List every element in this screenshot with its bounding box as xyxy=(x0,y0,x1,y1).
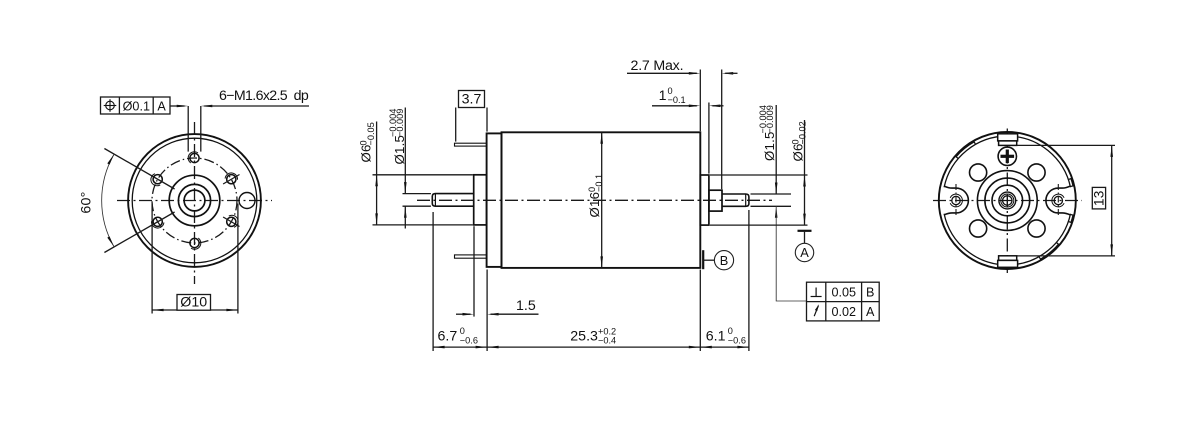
svg-text:Ø16: Ø16 xyxy=(587,192,602,218)
perpendicularity and runout tolerance frames xyxy=(807,282,880,321)
thread callout extension lines xyxy=(187,106,189,152)
svg-text:Ø0.1: Ø0.1 xyxy=(123,99,150,113)
svg-text:B: B xyxy=(720,253,729,268)
svg-text:−0.009: −0.009 xyxy=(765,105,775,133)
right Ø6 dimension line xyxy=(804,120,806,225)
rim slot below right ear xyxy=(1071,215,1073,222)
svg-text:Ø1.5: Ø1.5 xyxy=(762,131,777,161)
rear view horizontal centerline xyxy=(933,200,1082,202)
svg-text:−0.02: −0.02 xyxy=(798,121,808,144)
motor body outline xyxy=(502,132,701,268)
terminal tab bottom xyxy=(455,255,487,258)
svg-text:Ø10: Ø10 xyxy=(180,295,207,311)
front view vertical centerline xyxy=(194,122,196,284)
datum B symbol xyxy=(702,250,704,269)
Ø10 extension lines xyxy=(151,204,153,314)
svg-text:2.7 Max.: 2.7 Max. xyxy=(631,58,684,74)
rim slot above right ear xyxy=(1071,179,1073,186)
left Ø6 dimension line xyxy=(376,122,378,225)
6.7 dimension xyxy=(433,346,487,348)
tapped hole M1.6 #4 at 270 deg xyxy=(190,238,199,247)
Ø16 label xyxy=(587,192,602,218)
svg-text:60°: 60° xyxy=(79,191,95,213)
rear screw with cross xyxy=(998,147,1016,165)
Ø10 boxed label xyxy=(177,295,211,311)
position tolerance frame xyxy=(101,97,171,114)
rear cap outer circle xyxy=(939,132,1076,269)
left Ø6 extension lines xyxy=(373,174,473,176)
13 dimension line xyxy=(1111,145,1113,256)
rear tab top xyxy=(998,134,1018,141)
rim slot top-left xyxy=(956,142,974,157)
rear face extension line xyxy=(699,70,701,132)
tapped hole M1.6 #1 at 90 deg xyxy=(190,153,199,162)
right Ø6 extension lines xyxy=(710,174,808,176)
front shaft circle xyxy=(184,190,205,211)
svg-text:A: A xyxy=(866,305,875,319)
svg-text:3.7: 3.7 xyxy=(462,92,482,108)
front bearing boss circle xyxy=(169,175,220,226)
tapped hole M1.6 #5 at 330 deg xyxy=(227,217,236,226)
2.7 Max. dimension line xyxy=(627,72,697,74)
vent hole top-left xyxy=(970,164,987,181)
right Ø1.5 label xyxy=(762,131,777,161)
svg-text:0.05: 0.05 xyxy=(831,286,856,300)
svg-text:6.1: 6.1 xyxy=(706,328,726,344)
svg-text:−0.6: −0.6 xyxy=(460,336,478,346)
front view horizontal centerline xyxy=(117,200,272,202)
rear collar extension line xyxy=(721,70,723,190)
svg-text:−0.4: −0.4 xyxy=(598,336,616,346)
vent hole bottom-right xyxy=(1028,220,1045,237)
left Ø1.5 label xyxy=(392,135,407,165)
front bearing circle xyxy=(178,184,210,216)
left Ø6 label xyxy=(359,144,374,162)
svg-text:1.5: 1.5 xyxy=(516,298,536,314)
60 deg dimension arc with arrows xyxy=(102,154,114,247)
1.5 extension line xyxy=(473,226,475,316)
svg-text:1: 1 xyxy=(659,88,667,104)
rear boss extension line xyxy=(708,103,710,174)
svg-text:−0.1: −0.1 xyxy=(668,95,686,105)
13 extension lines xyxy=(1017,144,1115,146)
bottom dimension extension lines xyxy=(432,212,434,351)
left Ø1.5 dimension line xyxy=(404,108,406,194)
svg-text:B: B xyxy=(866,286,874,300)
terminal tab top xyxy=(455,143,487,146)
rear collar xyxy=(709,190,722,211)
right Ø6 label xyxy=(791,143,806,161)
25.3 dimension xyxy=(487,346,700,348)
svg-text:Ø6: Ø6 xyxy=(359,144,374,162)
side view centerline xyxy=(417,199,772,201)
svg-text:−0.6: −0.6 xyxy=(728,336,746,346)
rear hub circle xyxy=(992,185,1023,216)
bolt circle Ø10 centerline circle xyxy=(152,158,237,243)
60 deg dimension radial lines xyxy=(104,149,174,190)
mounting ear right xyxy=(1054,196,1062,204)
tapped hole M1.6 #2 at 150 deg xyxy=(153,175,162,184)
tapped hole M1.6 #3 at 210 deg xyxy=(153,217,162,226)
svg-text:13: 13 xyxy=(1092,190,1107,206)
thread callout leader xyxy=(170,105,185,107)
rear boss circle xyxy=(977,171,1037,231)
mounting ear left xyxy=(952,196,960,204)
svg-text:6.7: 6.7 xyxy=(438,328,458,344)
front shaft Ø1.5 xyxy=(432,194,473,207)
Ø16 dimension line xyxy=(601,132,603,268)
1 −0.1 dimension line xyxy=(652,105,697,107)
rear cap inner rim circle xyxy=(944,136,1070,187)
rear shaft Ø1.5 xyxy=(722,194,749,206)
rear bearing boss xyxy=(700,175,709,225)
svg-text:0.02: 0.02 xyxy=(831,305,856,319)
svg-text:−0.009: −0.009 xyxy=(395,109,405,137)
svg-text:A: A xyxy=(800,245,809,260)
60 deg label xyxy=(79,191,95,213)
tapped hole M1.6 #6 at 30 deg xyxy=(227,175,236,184)
6.1 dimension xyxy=(700,346,749,348)
3.7 extension lines xyxy=(455,108,457,142)
3.7 boxed label xyxy=(459,91,485,108)
vent hole bottom-left xyxy=(970,220,987,237)
front housing inner rim circle xyxy=(132,138,257,263)
svg-text:A: A xyxy=(157,99,166,113)
right Ø1.5 dimension line and frame leader xyxy=(775,105,777,194)
rear shaft circles xyxy=(999,192,1016,209)
svg-text:6−M1.6x2.5 dp: 6−M1.6x2.5 dp xyxy=(219,88,309,104)
Ø10 dimension line xyxy=(152,309,238,311)
right Ø1.5 extension lines xyxy=(751,193,792,195)
left Ø1.5 extension lines xyxy=(403,193,431,195)
rear view vertical centerline xyxy=(1006,129,1008,274)
rear tab bottom xyxy=(999,256,1017,261)
13 boxed label xyxy=(1092,187,1105,209)
vent hole top-right xyxy=(1028,164,1045,181)
svg-text:25.3: 25.3 xyxy=(570,328,598,344)
rim slot bottom-right xyxy=(1040,244,1058,259)
datum A symbol xyxy=(798,230,812,232)
front housing outer circle xyxy=(128,134,261,267)
svg-text:−0.1: −0.1 xyxy=(594,174,604,192)
front bearing boss xyxy=(474,175,487,225)
svg-text:Ø1.5: Ø1.5 xyxy=(392,135,407,165)
rear bearing circle xyxy=(985,178,1030,223)
svg-text:Ø6: Ø6 xyxy=(791,143,806,161)
1.5 dimension line xyxy=(456,313,471,315)
svg-text:−0.05: −0.05 xyxy=(366,122,376,145)
front flange outline xyxy=(487,133,502,267)
flange side hole xyxy=(239,193,255,209)
